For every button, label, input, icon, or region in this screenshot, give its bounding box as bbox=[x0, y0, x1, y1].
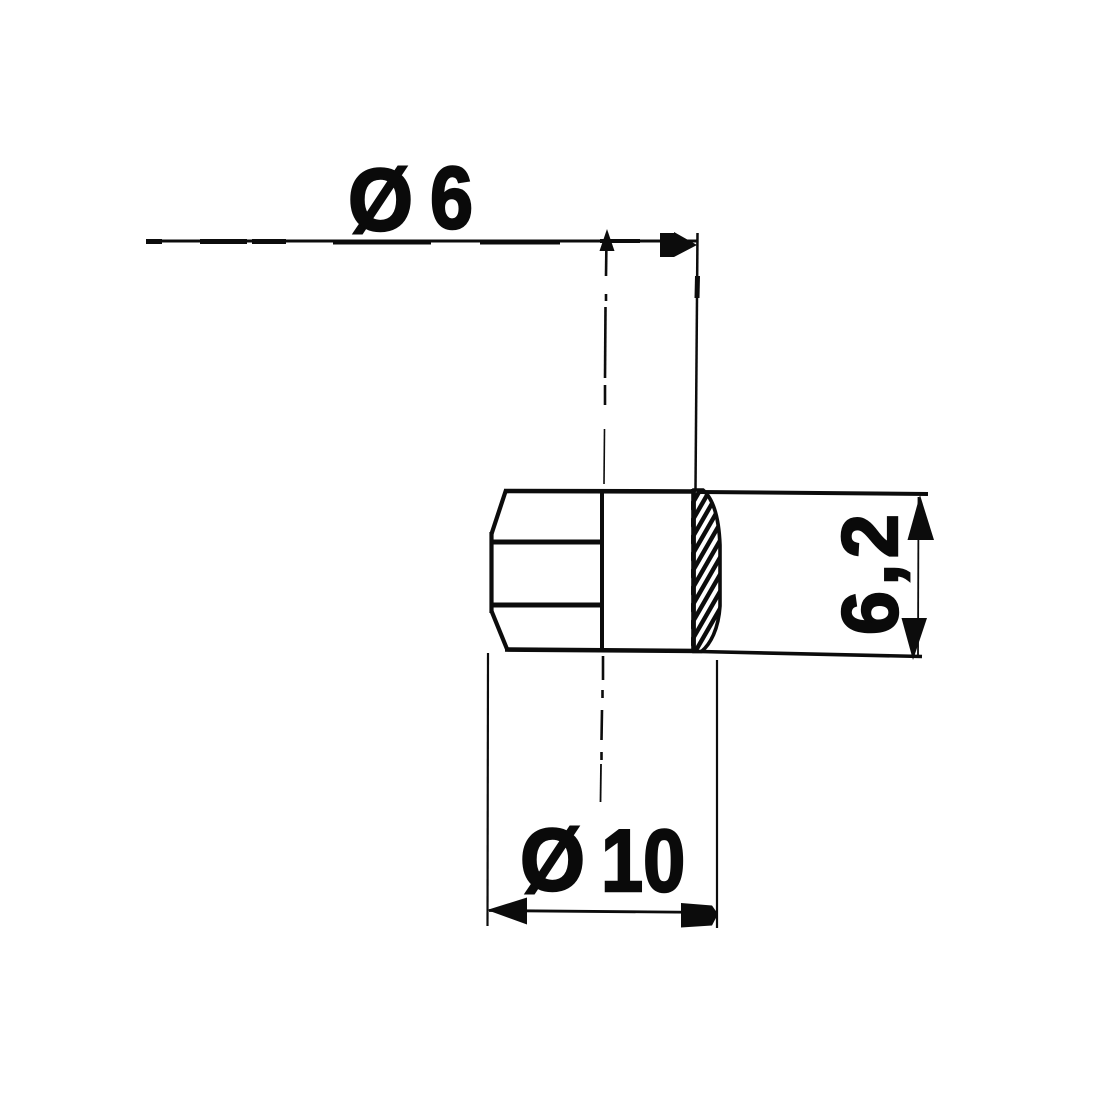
svg-text:10: 10 bbox=[601, 813, 685, 911]
hatched end face (lens) bbox=[680, 404, 740, 695]
dimension line Ø10 bbox=[489, 911, 717, 913]
svg-text:Ø: Ø bbox=[520, 811, 585, 909]
hex flat line upper bbox=[490, 540, 603, 545]
dimension line 6,2 vertical bbox=[917, 497, 920, 656]
centerline (dash-dot) below part bbox=[601, 656, 604, 802]
extension line right (Ø10) bbox=[716, 660, 718, 928]
arrow right (Ø10) bbox=[681, 903, 718, 928]
part outline: bottom-left chamfer bbox=[492, 611, 508, 649]
svg-text:6: 6 bbox=[430, 148, 473, 247]
centerline (dash-dot) above part bbox=[604, 238, 607, 484]
text Ø 10 bbox=[520, 811, 685, 910]
text 6,2 rotated bbox=[825, 509, 914, 635]
arrow right (Ø6) bbox=[660, 232, 697, 257]
extension line left (Ø10) bbox=[486, 653, 489, 926]
text Ø 6 bbox=[348, 148, 473, 249]
extension line top (6,2) bbox=[700, 492, 928, 494]
extension line bottom (6,2) bbox=[700, 652, 922, 657]
part outline: top edge bbox=[504, 489, 697, 494]
svg-text:Ø: Ø bbox=[348, 151, 413, 249]
svg-text:6,2: 6,2 bbox=[825, 509, 914, 635]
arrow down (6,2) bbox=[902, 618, 928, 660]
part outline: top-left chamfer bbox=[492, 490, 507, 534]
hex flat line lower bbox=[490, 603, 603, 608]
arrow left (Ø10) bbox=[487, 898, 527, 925]
arrow up (6,2) bbox=[908, 495, 935, 540]
dimension line Ø6 bbox=[146, 241, 697, 242]
arrow up at centerline (Ø6) bbox=[600, 229, 615, 251]
extension line at x697 bbox=[696, 233, 698, 489]
part outline: left edge bbox=[489, 532, 493, 613]
part outline: bottom edge bbox=[505, 650, 700, 652]
hex/cylinder boundary vertical line bbox=[600, 490, 604, 651]
